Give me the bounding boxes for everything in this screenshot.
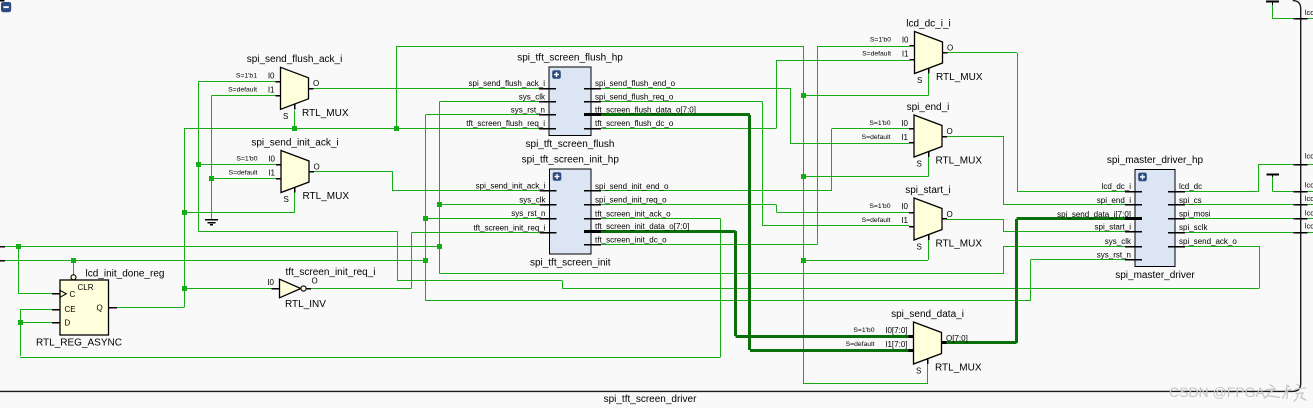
svg-text:S=1'b0: S=1'b0 [869, 203, 890, 210]
svg-text:lcd_dc_i_i: lcd_dc_i_i [906, 18, 950, 29]
svg-text:S: S [284, 195, 289, 204]
svg-text:S=1'b0: S=1'b0 [870, 37, 891, 44]
svg-text:lcd_d: lcd_d [1305, 8, 1313, 17]
svg-text:spi_master_driver_hp: spi_master_driver_hp [1107, 155, 1204, 166]
svg-text:lcd_init_done_reg: lcd_init_done_reg [86, 269, 165, 280]
svg-text:sys_rst_n: sys_rst_n [511, 209, 545, 218]
svg-text:sys_clk: sys_clk [519, 92, 546, 101]
svg-text:O: O [312, 276, 318, 285]
svg-text:spi_cs: spi_cs [1179, 196, 1202, 205]
svg-text:lcd_d: lcd_d [1305, 194, 1313, 203]
svg-text:spi_tft_screen_flush: spi_tft_screen_flush [526, 139, 615, 150]
svg-text:O[7:0]: O[7:0] [946, 334, 968, 343]
svg-text:RTL_MUX: RTL_MUX [936, 72, 983, 83]
svg-text:RTL_MUX: RTL_MUX [302, 108, 349, 119]
svg-text:S: S [916, 367, 921, 376]
svg-text:spi_tft_screen_flush_hp: spi_tft_screen_flush_hp [517, 53, 623, 64]
svg-text:spi_tft_screen_init: spi_tft_screen_init [530, 258, 611, 269]
svg-text:spi_send_init_ack_i: spi_send_init_ack_i [476, 182, 546, 191]
svg-text:I0[7:0]: I0[7:0] [885, 326, 907, 335]
svg-text:spi_send_flush_end_o: spi_send_flush_end_o [595, 79, 676, 88]
svg-text:S=1'b0: S=1'b0 [853, 327, 874, 334]
svg-text:I1: I1 [268, 85, 275, 94]
svg-text:S=1'b1: S=1'b1 [236, 73, 257, 80]
svg-text:S: S [917, 160, 922, 169]
svg-text:S=default: S=default [846, 341, 875, 348]
svg-text:RTL_MUX: RTL_MUX [936, 156, 983, 167]
svg-text:I0: I0 [902, 36, 909, 45]
svg-text:D: D [65, 318, 71, 327]
svg-text:S: S [917, 243, 922, 252]
svg-text:spi_send_init_ack_i: spi_send_init_ack_i [251, 137, 338, 148]
svg-text:lcd_d: lcd_d [1305, 181, 1313, 190]
svg-text:I1: I1 [901, 133, 908, 142]
svg-text:I0: I0 [901, 119, 908, 128]
svg-text:S=default: S=default [862, 51, 891, 58]
svg-text:lcd_d: lcd_d [1305, 152, 1313, 161]
svg-text:tft_screen_init_dc_o: tft_screen_init_dc_o [595, 235, 667, 244]
svg-text:tft_screen_init_ack_o: tft_screen_init_ack_o [595, 209, 671, 218]
svg-text:I0: I0 [268, 71, 275, 80]
svg-text:CE: CE [65, 305, 76, 314]
svg-text:spi_send_ack_o: spi_send_ack_o [1179, 237, 1237, 246]
svg-text:spi_send_flush_req_o: spi_send_flush_req_o [595, 92, 674, 101]
svg-text:O: O [947, 210, 953, 219]
svg-text:S: S [283, 112, 288, 121]
svg-text:CSDN @FPGA: CSDN @FPGA [1169, 384, 1266, 400]
svg-text:lcd_d: lcd_d [1305, 208, 1313, 217]
svg-text:spi_end_i: spi_end_i [907, 102, 950, 113]
svg-text:lcd_dc: lcd_dc [1179, 182, 1202, 191]
svg-text:S=1'b0: S=1'b0 [869, 120, 890, 127]
svg-text:I0: I0 [268, 155, 275, 164]
svg-text:spi_send_flush_ack_i: spi_send_flush_ack_i [247, 54, 343, 65]
svg-text:spi_sclk: spi_sclk [1179, 223, 1208, 232]
svg-text:O: O [947, 127, 953, 136]
svg-text:CLR: CLR [78, 283, 94, 292]
svg-text:I1: I1 [902, 50, 909, 59]
svg-text:I1: I1 [901, 216, 908, 225]
svg-text:C: C [70, 290, 76, 299]
svg-text:spi_tft_screen_driver: spi_tft_screen_driver [604, 394, 697, 405]
svg-text:lcd_d: lcd_d [1305, 222, 1313, 231]
svg-text:sys_clk: sys_clk [1105, 237, 1132, 246]
svg-text:spi_send_init_req_o: spi_send_init_req_o [595, 196, 667, 205]
svg-text:RTL_INV: RTL_INV [285, 299, 326, 310]
svg-text:spi_send_flush_ack_i: spi_send_flush_ack_i [469, 79, 546, 88]
svg-text:tft_screen_init_req_i: tft_screen_init_req_i [285, 267, 375, 278]
svg-text:I0: I0 [901, 202, 908, 211]
svg-text:spi_master_driver: spi_master_driver [1115, 270, 1195, 281]
svg-text:spi_end_i: spi_end_i [1097, 196, 1131, 205]
svg-text:I1: I1 [268, 169, 275, 178]
svg-text:S=default: S=default [862, 217, 891, 224]
svg-text:tft_screen_flush_req_i: tft_screen_flush_req_i [466, 119, 545, 128]
svg-text:I0: I0 [267, 278, 274, 287]
svg-text:S=default: S=default [228, 87, 257, 94]
svg-text:tft_screen_flush_dc_o: tft_screen_flush_dc_o [595, 119, 674, 128]
svg-text:tft_screen_init_req_i: tft_screen_init_req_i [473, 223, 545, 232]
svg-text:tft_screen_init_data_o[7:0]: tft_screen_init_data_o[7:0] [595, 222, 689, 231]
svg-text:sys_rst_n: sys_rst_n [1097, 251, 1131, 260]
svg-text:I1[7:0]: I1[7:0] [885, 340, 907, 349]
svg-text:spi_send_init_end_o: spi_send_init_end_o [595, 182, 669, 191]
svg-text:spi_send_data_i[7:0]: spi_send_data_i[7:0] [1057, 210, 1131, 219]
svg-text:spi_tft_screen_init_hp: spi_tft_screen_init_hp [522, 155, 620, 166]
svg-text:sys_clk: sys_clk [519, 195, 546, 204]
svg-text:spi_start_i: spi_start_i [905, 185, 951, 196]
svg-text:O: O [313, 79, 319, 88]
svg-text:O: O [947, 43, 953, 52]
svg-text:RTL_MUX: RTL_MUX [935, 363, 982, 374]
svg-text:spi_start_i: spi_start_i [1095, 223, 1132, 232]
svg-text:RTL_MUX: RTL_MUX [303, 191, 350, 202]
svg-text:spi_mosi: spi_mosi [1179, 210, 1211, 219]
svg-text:sys_rst_n: sys_rst_n [511, 106, 545, 115]
svg-text:S=default: S=default [862, 134, 891, 141]
svg-text:Q: Q [97, 304, 103, 313]
svg-text:RTL_MUX: RTL_MUX [936, 239, 983, 250]
svg-text:O: O [314, 162, 320, 171]
svg-text:S=1'b0: S=1'b0 [236, 156, 257, 163]
svg-text:S=default: S=default [229, 170, 258, 177]
svg-text:lcd_dc_i: lcd_dc_i [1102, 182, 1132, 191]
svg-text:RTL_REG_ASYNC: RTL_REG_ASYNC [36, 338, 122, 349]
svg-text:S: S [917, 76, 922, 85]
svg-text:spi_send_data_i: spi_send_data_i [891, 309, 964, 320]
svg-text:tft_screen_flush_data_o[7:0]: tft_screen_flush_data_o[7:0] [595, 106, 696, 115]
